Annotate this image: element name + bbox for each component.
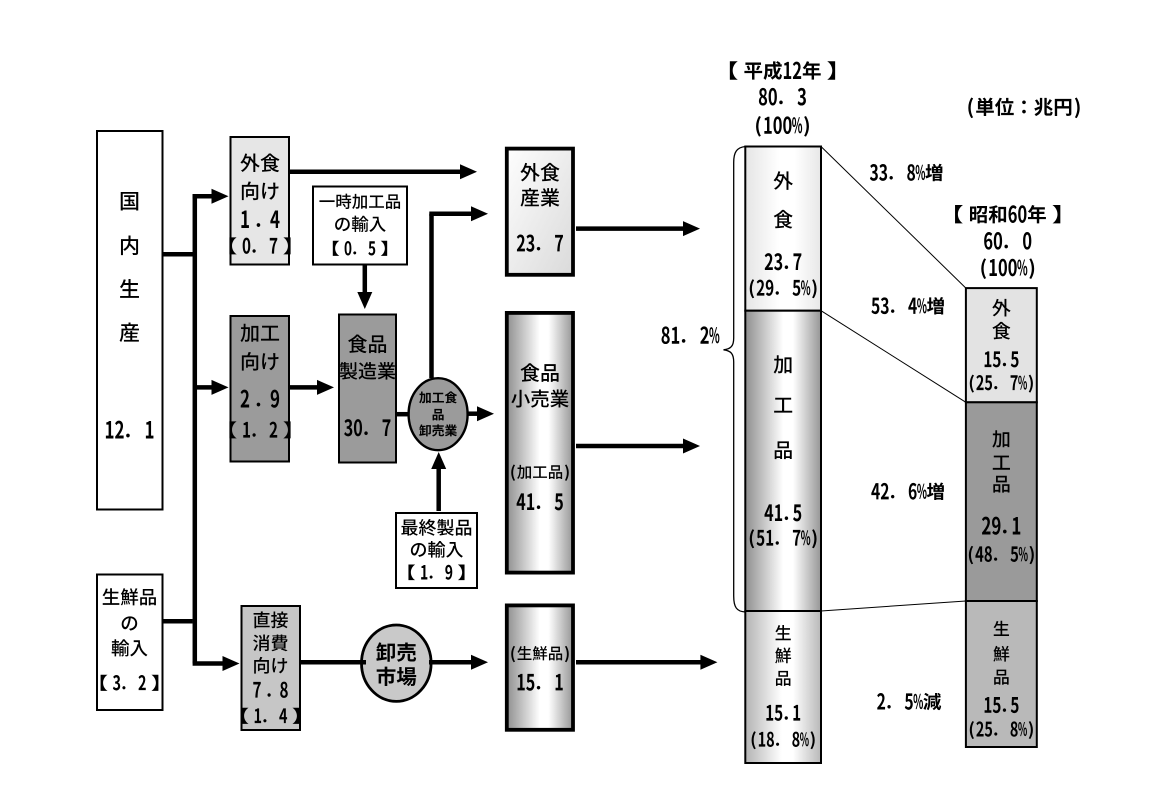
label 15.1 xyxy=(766,705,800,721)
label 12.1 xyxy=(106,421,154,439)
label 工 xyxy=(774,398,792,413)
label (29.5%) xyxy=(750,279,817,298)
label 向け xyxy=(242,181,279,200)
label 【1.9】 xyxy=(408,565,464,581)
label 生鮮品 xyxy=(103,588,156,605)
label 53.4%増 xyxy=(871,297,943,314)
label 加工 xyxy=(241,324,280,342)
wire 食品製造業 to ellipse xyxy=(397,412,409,417)
label 食品 xyxy=(521,363,559,382)
label 81.2% xyxy=(662,326,720,344)
wire trunk vertical xyxy=(193,194,198,663)
label 加工食 xyxy=(419,391,457,403)
ellipse 卸売市場 (wholesale market) xyxy=(362,625,432,701)
label 外 xyxy=(992,299,1010,317)
label 向け xyxy=(254,657,287,674)
wire 直接消費向け to 卸売市場 xyxy=(300,660,366,665)
label 33.8%増 xyxy=(870,164,942,181)
label 41.5 xyxy=(764,504,801,521)
label 42.6%増 xyxy=(871,483,944,500)
label (51.7%) xyxy=(750,529,817,548)
label 生 xyxy=(994,621,1009,636)
label 【平成12年】 xyxy=(730,61,835,80)
label (生鮮品) xyxy=(511,646,569,662)
label 最終製品 xyxy=(401,519,471,536)
wire trunk to 外食向け + arrowhead xyxy=(193,194,214,199)
connector 加工品/生鮮品 boundary diagonal xyxy=(821,601,966,611)
label (48.5%) xyxy=(969,546,1034,564)
label (25.7%) xyxy=(970,375,1033,393)
label 食 xyxy=(992,322,1010,340)
wire 最終製品 up to ellipse + arrowhead xyxy=(436,468,441,511)
label (単位：兆円) xyxy=(968,98,1079,119)
label 輸入 xyxy=(112,639,148,656)
label 60.0 xyxy=(984,232,1031,250)
wire 卸売市場 to (生鮮品) + arrowhead xyxy=(429,660,472,665)
label (18.8%) xyxy=(752,731,815,749)
box 最終製品の輸入 (final product imports) xyxy=(396,513,477,588)
label 一時加工品 xyxy=(319,194,400,209)
label (100%) xyxy=(756,116,809,137)
label 80.3 xyxy=(759,88,806,106)
label 品 xyxy=(776,671,790,686)
label 鮮 xyxy=(993,646,1009,662)
wire ellipse up & right to 外食産業 + arrowhead xyxy=(429,214,434,378)
label 加 xyxy=(992,430,1009,447)
wire (生鮮品) to 平成12年 bar + arrowhead xyxy=(576,660,701,665)
label (25.8%) xyxy=(970,721,1033,739)
label 工 xyxy=(993,456,1010,470)
label の輸入 xyxy=(335,216,386,232)
wire 食品小売業 to 平成12年 bar + arrowhead xyxy=(576,444,684,449)
label 品 xyxy=(994,670,1008,685)
label 製造業 xyxy=(340,362,396,380)
label 品 xyxy=(775,441,792,459)
connector 外食/加工品 boundary diagonal xyxy=(821,311,966,403)
label 15.5 xyxy=(985,697,1019,713)
wire 国内生産 to trunk xyxy=(162,252,197,257)
wire 生鮮品の輸入 to trunk xyxy=(162,619,193,624)
bar 昭和60年 外食 segment xyxy=(966,288,1037,402)
label 外食 xyxy=(240,153,279,172)
label 小売業 xyxy=(511,389,568,407)
label 市場 xyxy=(377,667,417,686)
label 食品 xyxy=(348,334,386,353)
brace 81.2% span xyxy=(724,147,746,613)
bar 平成12年 外食 segment xyxy=(745,147,821,311)
box 国内生産 (domestic production) xyxy=(97,131,163,510)
label 【昭和60年】 xyxy=(955,205,1060,223)
wire 外食産業 to 平成12年 bar + arrowhead xyxy=(576,226,684,231)
label 【0.7】 xyxy=(229,237,290,254)
bar 平成12年 加工品 segment xyxy=(745,311,821,611)
label 【1.4】 xyxy=(242,708,300,724)
label 【1.2】 xyxy=(229,421,290,438)
label 品 xyxy=(993,476,1009,493)
label 1.4 xyxy=(241,210,279,227)
label (100%) xyxy=(981,258,1034,279)
label 15.5 xyxy=(985,351,1019,367)
label 2.9 xyxy=(241,390,280,408)
label 直接 xyxy=(254,611,288,628)
bar 昭和60年 加工品 segment xyxy=(966,402,1037,601)
label 【0.5】 xyxy=(333,241,387,256)
label の輸入 xyxy=(411,541,463,558)
label 卸売 xyxy=(376,642,416,661)
box 一時加工品の輸入 (primary processed imports) xyxy=(313,187,407,265)
label 30.7 xyxy=(344,419,390,436)
label 15.1 xyxy=(518,674,563,691)
label 外 xyxy=(774,171,793,190)
box 食品製造業 (food manufacturing) xyxy=(339,315,396,463)
label 【3.2】 xyxy=(101,675,159,691)
wire ellipse to 食品小売業 + arrowhead xyxy=(467,411,478,416)
label 品 xyxy=(433,409,444,421)
label 23.7 xyxy=(765,253,802,270)
label 国 xyxy=(121,192,139,211)
label 加 xyxy=(774,355,792,373)
label 生 xyxy=(120,279,139,298)
box (生鮮品) 15.1 xyxy=(507,605,573,729)
label の xyxy=(122,616,138,630)
label 外食 xyxy=(520,163,559,182)
label 消費 xyxy=(253,634,288,651)
label 鮮 xyxy=(775,648,791,664)
label (加工品) xyxy=(511,464,569,480)
label 7.8 xyxy=(253,682,288,698)
label 23.7 xyxy=(517,235,563,252)
label 食 xyxy=(774,210,793,229)
box 外食向け (for eating out) xyxy=(231,137,290,265)
box 加工向け (for processing) xyxy=(231,316,290,462)
label 卸売業 xyxy=(419,424,457,436)
label 41.5 xyxy=(517,493,563,510)
box 外食産業 (restaurant industry) xyxy=(507,149,573,275)
wire 加工向け to 食品製造業 + arrowhead xyxy=(290,385,318,390)
box 直接消費向け (direct consumption) xyxy=(242,606,301,730)
label 産 xyxy=(120,323,139,342)
wire trunk to 加工向け + arrowhead xyxy=(197,385,214,390)
box 生鮮品の輸入 (fresh imports) xyxy=(97,575,163,711)
ellipse 加工食品卸売業 (processed food wholesale) xyxy=(409,378,468,450)
label 内 xyxy=(121,236,138,256)
label 生 xyxy=(775,625,790,640)
bar 平成12年 生鮮品 segment xyxy=(745,611,821,763)
connector bar-tops diagonal xyxy=(821,147,966,289)
bar 昭和60年 生鮮品 segment xyxy=(966,601,1037,747)
wire 一時加工品 down to 食品製造業 + arrowhead xyxy=(363,266,368,294)
label 向け xyxy=(242,352,279,371)
label 2.5%減 xyxy=(877,693,941,710)
wire trunk bottom to 直接消費向け + arrowhead xyxy=(193,661,223,666)
wire 外食向け to 外食産業 + arrowhead xyxy=(290,170,461,175)
label 産業 xyxy=(521,188,560,207)
label 29.1 xyxy=(982,517,1020,535)
box 食品小売業 (food retail) xyxy=(507,313,573,573)
